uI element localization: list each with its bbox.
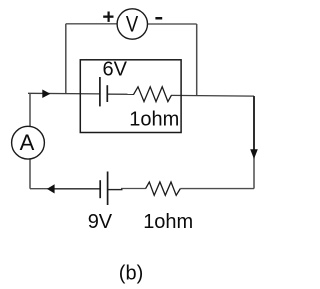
arrow current direction right (top wire) <box>42 90 50 99</box>
svg-text:1ohm: 1ohm <box>129 109 179 131</box>
svg-text:(b): (b) <box>119 262 143 284</box>
svg-text:9V: 9V <box>88 211 113 233</box>
svg-text:V: V <box>126 12 139 37</box>
ammeter A <box>12 126 45 159</box>
battery 9V short plate <box>99 180 101 198</box>
svg-text:1ohm: 1ohm <box>143 211 193 233</box>
wire left vertical bottom <box>29 159 31 189</box>
wire voltmeter left vertical <box>65 24 67 94</box>
voltmeter V <box>117 9 147 39</box>
resistor 1ohm (bottom) <box>146 182 181 195</box>
label - (voltmeter negative) <box>155 17 162 20</box>
wire bottom main left segment <box>54 188 100 190</box>
box enclosing 6V source <box>80 60 181 133</box>
wire voltmeter right vertical <box>196 24 198 96</box>
wire bottom main right segment <box>180 188 254 190</box>
battery 9V long plate <box>107 172 109 206</box>
label + (voltmeter positive) <box>103 16 113 18</box>
wire top main middle segment <box>107 93 134 95</box>
wire left vertical top <box>29 93 31 126</box>
wire voltmeter right horizontal <box>147 23 196 25</box>
wire right vertical <box>253 96 255 189</box>
arrow current direction left (bottom wire) <box>47 184 55 193</box>
battery 6V short plate <box>106 85 108 102</box>
battery 6V long plate <box>99 77 101 106</box>
wire bottom main middle segment <box>121 188 146 190</box>
svg-text:6V: 6V <box>103 59 128 81</box>
wire bottom far left segment <box>30 188 48 190</box>
wire voltmeter left horizontal <box>66 23 117 25</box>
wire top main left segment <box>28 92 100 95</box>
resistor 1ohm (top) <box>134 87 172 102</box>
wire top main right segment <box>171 94 254 97</box>
svg-text:A: A <box>20 130 35 155</box>
arrow current direction down <box>253 96 255 150</box>
wire bottom battery right stub <box>108 189 123 191</box>
